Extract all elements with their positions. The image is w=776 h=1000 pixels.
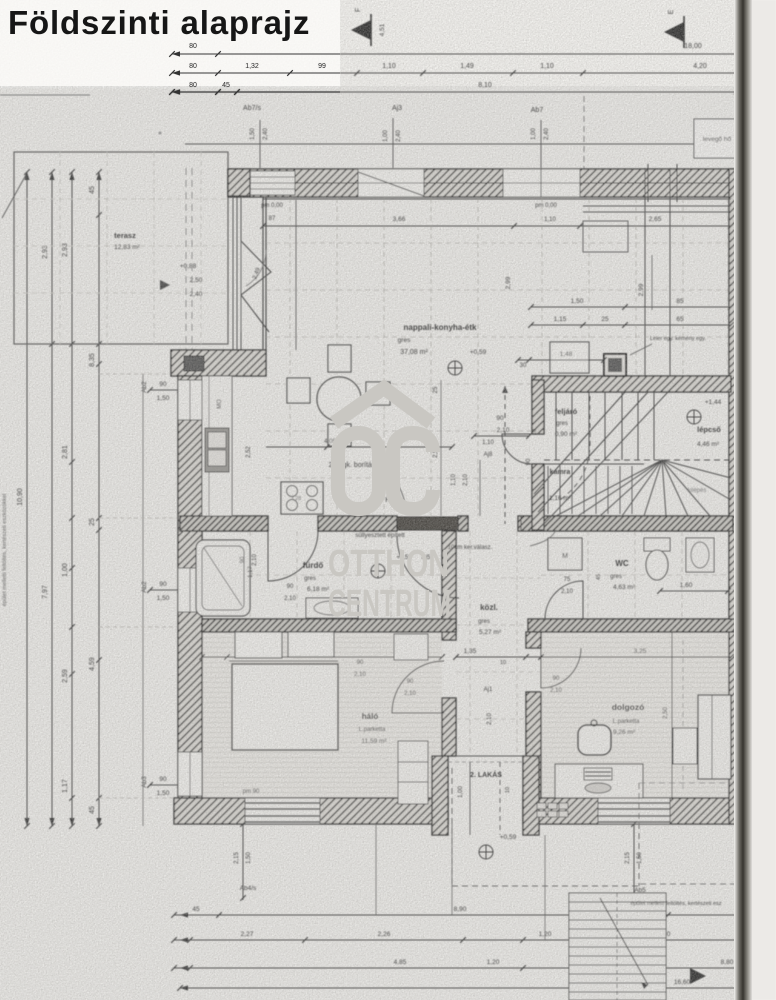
svg-text:99: 99 [318,63,326,70]
svg-text:1,32: 1,32 [245,63,259,70]
svg-text:CENTRUM: CENTRUM [328,583,451,625]
svg-text:80: 80 [189,63,197,70]
svg-text:80: 80 [189,82,197,89]
svg-text:45: 45 [222,82,230,89]
svg-text:80: 80 [189,43,197,50]
svg-text:OTTHON: OTTHON [328,543,449,585]
